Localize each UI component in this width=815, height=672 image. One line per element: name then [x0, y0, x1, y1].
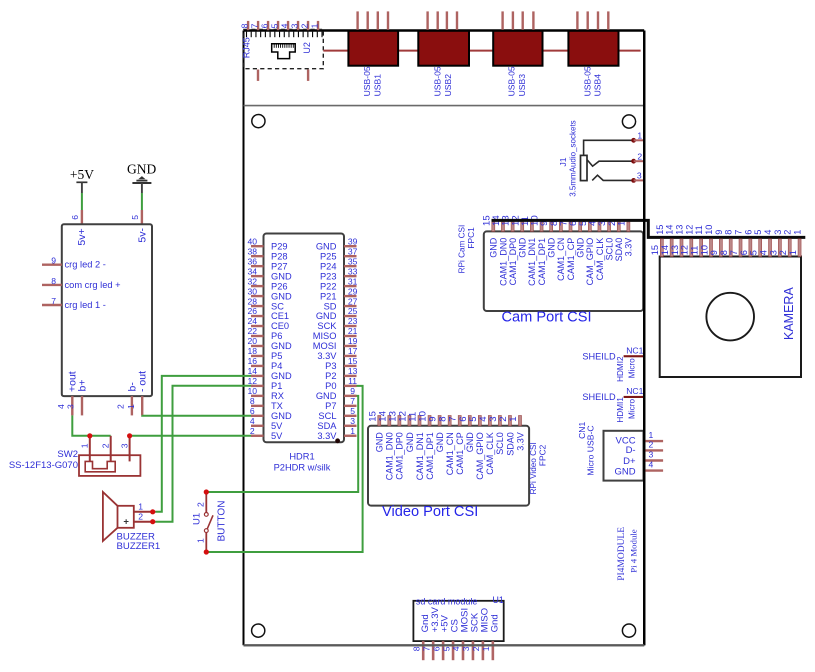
- svg-text:GND: GND: [316, 391, 337, 401]
- FPC2 pin numbers 15..1: [367, 410, 519, 421]
- svg-text:GND: GND: [435, 432, 445, 453]
- svg-text:21: 21: [348, 326, 358, 336]
- svg-text:Micro: Micro: [627, 358, 636, 378]
- svg-text:5: 5: [130, 215, 140, 220]
- svg-text:SS-12F13-G070: SS-12F13-G070: [9, 460, 78, 471]
- svg-text:RX: RX: [271, 391, 284, 401]
- svg-text:J1: J1: [558, 157, 568, 166]
- svg-text:11: 11: [348, 376, 357, 386]
- svg-text:5: 5: [269, 23, 279, 28]
- USB port USB4 (USB-05): [568, 11, 618, 96]
- svg-text:6: 6: [743, 230, 753, 235]
- svg-text:U1: U1: [192, 513, 203, 525]
- svg-text:3: 3: [119, 443, 129, 448]
- CN1 pin stubs 1..4: [644, 430, 663, 471]
- svg-text:2: 2: [101, 443, 111, 448]
- svg-text:HDR1: HDR1: [289, 452, 314, 462]
- wire SW2 pin 3 to HDR1 pin 2 5V: [130, 435, 253, 437]
- J1 pin 2 stub: [634, 160, 644, 162]
- svg-text:8: 8: [250, 396, 255, 406]
- FPC2 RPi Video CSI connector: [368, 416, 529, 506]
- svg-text:15: 15: [650, 245, 660, 255]
- svg-text:P1: P1: [271, 381, 282, 391]
- svg-text:26: 26: [248, 306, 258, 316]
- svg-text:19: 19: [348, 336, 358, 346]
- sd card module U1: [413, 595, 504, 641]
- svg-text:SHEILD: SHEILD: [582, 392, 616, 402]
- wire HDR1 pin 14 GND to buzzer pin 1: [155, 376, 253, 512]
- svg-text:3.3V: 3.3V: [317, 351, 337, 361]
- svg-text:34: 34: [248, 266, 258, 276]
- svg-text:12: 12: [684, 225, 694, 235]
- svg-text:3: 3: [773, 230, 783, 235]
- svg-text:27: 27: [348, 296, 358, 306]
- junction button pin 2: [204, 489, 209, 494]
- svg-text:37: 37: [348, 246, 358, 256]
- J1 pin 2 junction: [631, 159, 636, 164]
- svg-text:9: 9: [350, 386, 355, 396]
- svg-text:3.5mmAudio_sockets: 3.5mmAudio_sockets: [569, 120, 578, 196]
- svg-text:5: 5: [753, 230, 763, 235]
- svg-text:24: 24: [248, 316, 258, 326]
- svg-text:+: +: [123, 517, 129, 528]
- svg-text:14: 14: [665, 225, 675, 235]
- board edge redraw over stubs: [244, 31, 645, 646]
- svg-text:GND: GND: [271, 411, 292, 421]
- charger pin 7 stub crg led 1-: [42, 304, 62, 306]
- svg-text:29: 29: [348, 286, 358, 296]
- svg-text:1: 1: [80, 443, 90, 448]
- wire +out to SW2 pins 1/2: [72, 415, 110, 435]
- svg-text:GND: GND: [489, 237, 499, 257]
- svg-text:18: 18: [248, 346, 258, 356]
- svg-text:15: 15: [655, 225, 665, 235]
- svg-text:CAM1_CN: CAM1_CN: [556, 238, 566, 281]
- junction SW2 pin 1 / +out: [87, 433, 92, 438]
- svg-text:7: 7: [249, 23, 259, 28]
- svg-text:7: 7: [350, 396, 355, 406]
- micro HDMI port HDMI2: [582, 345, 643, 382]
- svg-text:U2: U2: [302, 42, 312, 54]
- red wire net along USB ports: [323, 50, 640, 52]
- svg-text:KAMERA: KAMERA: [782, 287, 796, 340]
- svg-text:Video Port CSI: Video Port CSI: [382, 504, 478, 520]
- charger pin 8 stub com crg led+: [42, 284, 62, 286]
- svg-text:11: 11: [690, 246, 700, 256]
- svg-text:14: 14: [248, 366, 258, 376]
- RJ45 connector U2: [244, 29, 323, 68]
- svg-text:17: 17: [348, 346, 358, 356]
- svg-text:6: 6: [70, 215, 80, 220]
- wire +5V to charger pin 6: [81, 193, 83, 210]
- micro HDMI port HDMI1: [582, 386, 643, 423]
- wire -out to HDR1 pin 6 GND: [142, 414, 253, 416]
- svg-text:USB2: USB2: [443, 74, 453, 97]
- svg-text:RJ45: RJ45: [242, 37, 252, 58]
- svg-text:GND: GND: [271, 341, 292, 351]
- svg-text:b+: b+: [76, 380, 88, 392]
- svg-text:CE0: CE0: [271, 321, 289, 331]
- svg-text:8: 8: [411, 646, 421, 651]
- svg-text:P25: P25: [320, 251, 337, 261]
- HDR1 right pin stubs odd 39..1: [344, 246, 357, 436]
- camera module KAMERA: [660, 257, 801, 378]
- svg-text:SC: SC: [271, 301, 284, 311]
- svg-text:2: 2: [195, 502, 205, 507]
- svg-text:U1: U1: [492, 595, 504, 605]
- svg-text:6: 6: [431, 646, 441, 651]
- svg-text:SCL: SCL: [318, 411, 336, 421]
- svg-text:5: 5: [350, 406, 355, 416]
- J1 pin 3 junction: [631, 178, 636, 183]
- KAMERA pin numbers on stubs: [650, 245, 798, 255]
- slide switch SW2 SS-12F13-G070: [79, 436, 140, 476]
- J1 pin 3 stub: [634, 179, 644, 181]
- svg-text:8: 8: [51, 276, 56, 286]
- svg-text:P27: P27: [271, 261, 288, 271]
- svg-text:CAM1_DN0: CAM1_DN0: [385, 432, 395, 480]
- charger pin 4 stub +out: [71, 396, 73, 415]
- svg-text:SHEILD: SHEILD: [582, 351, 616, 361]
- svg-text:1: 1: [309, 23, 319, 28]
- svg-text:HDMI1: HDMI1: [616, 397, 625, 423]
- svg-text:3.3V: 3.3V: [624, 238, 634, 257]
- svg-text:9: 9: [51, 256, 56, 266]
- svg-text:39: 39: [348, 236, 358, 246]
- svg-text:14: 14: [660, 245, 670, 255]
- svg-text:6: 6: [250, 406, 255, 416]
- svg-text:CAM1_CP: CAM1_CP: [455, 432, 465, 475]
- svg-text:CAM1_DP1: CAM1_DP1: [537, 238, 547, 286]
- HDR1 right pin numbers: [348, 236, 358, 436]
- svg-text:7: 7: [729, 250, 739, 255]
- svg-text:1: 1: [788, 250, 798, 255]
- svg-text:GND: GND: [614, 466, 635, 477]
- svg-text:Pi 4 Module: Pi 4 Module: [629, 529, 639, 573]
- svg-text:GND: GND: [375, 432, 385, 453]
- svg-text:11: 11: [694, 225, 704, 235]
- svg-text:USB3: USB3: [517, 74, 527, 97]
- svg-text:CAM1_DN1: CAM1_DN1: [415, 432, 425, 480]
- svg-text:MISO: MISO: [313, 331, 337, 341]
- RJ45 U2 pin numbers 8..1: [240, 23, 320, 28]
- svg-text:1: 1: [350, 426, 355, 436]
- svg-text:10: 10: [699, 245, 709, 255]
- svg-text:25: 25: [348, 306, 358, 316]
- svg-text:P4: P4: [271, 361, 282, 371]
- svg-text:31: 31: [348, 276, 358, 286]
- svg-text:USB-05: USB-05: [362, 66, 372, 96]
- svg-text:GND: GND: [271, 271, 292, 281]
- svg-text:9: 9: [709, 250, 719, 255]
- svg-text:13: 13: [674, 225, 684, 235]
- svg-text:1: 1: [138, 502, 143, 512]
- svg-text:USB-05: USB-05: [582, 66, 592, 96]
- svg-text:SD: SD: [324, 301, 337, 311]
- svg-text:2: 2: [637, 151, 642, 161]
- charger pin 3 stub b+: [81, 396, 83, 415]
- svg-text:sd card module: sd card module: [416, 596, 478, 606]
- svg-text:3: 3: [637, 171, 642, 181]
- svg-text:BUZZER1: BUZZER1: [117, 541, 161, 552]
- svg-text:- out: - out: [137, 371, 149, 392]
- svg-text:CAM1_DP0: CAM1_DP0: [395, 432, 405, 480]
- svg-text:8: 8: [724, 230, 734, 235]
- svg-text:4: 4: [56, 404, 66, 409]
- J1 pin 1 junction: [631, 138, 636, 143]
- svg-text:3.3V: 3.3V: [317, 431, 337, 441]
- svg-text:PI4MODULE: PI4MODULE: [617, 527, 627, 581]
- svg-text:40: 40: [248, 236, 258, 246]
- svg-text:MOSI: MOSI: [313, 341, 337, 351]
- mounting hole top-left: [252, 115, 265, 128]
- svg-text:4: 4: [250, 416, 255, 426]
- svg-text:3: 3: [66, 404, 76, 409]
- svg-text:13: 13: [670, 245, 680, 255]
- svg-text:CAM1_DN1: CAM1_DN1: [527, 238, 537, 286]
- svg-text:22: 22: [248, 326, 258, 336]
- svg-text:Cam Port CSI: Cam Port CSI: [502, 309, 592, 325]
- svg-text:P7: P7: [325, 401, 336, 411]
- svg-text:GND: GND: [575, 237, 585, 257]
- svg-text:5V: 5V: [271, 431, 283, 441]
- svg-text:7: 7: [51, 296, 56, 306]
- svg-text:CAM1_CN: CAM1_CN: [445, 432, 455, 475]
- svg-text:1: 1: [637, 131, 642, 141]
- junction buzzer pin 1: [150, 509, 155, 514]
- svg-text:SDA0: SDA0: [505, 432, 515, 456]
- svg-text:Gnd: Gnd: [489, 614, 500, 632]
- svg-text:2: 2: [778, 250, 788, 255]
- svg-text:CAM1_DN0: CAM1_DN0: [498, 238, 508, 286]
- svg-text:3: 3: [649, 450, 654, 460]
- push button U1: [204, 492, 213, 552]
- svg-text:4: 4: [758, 250, 768, 255]
- svg-text:NC1: NC1: [626, 345, 643, 355]
- svg-text:12: 12: [680, 245, 690, 255]
- svg-text:P3: P3: [325, 361, 336, 371]
- svg-text:SDA0: SDA0: [614, 238, 624, 262]
- svg-text:2: 2: [116, 404, 126, 409]
- svg-text:1: 1: [481, 646, 491, 651]
- buzzer BUZZER1: [103, 492, 155, 541]
- svg-text:P28: P28: [271, 251, 288, 261]
- charger pin 6 stub: [81, 210, 83, 224]
- svg-text:CAM1_CP: CAM1_CP: [566, 238, 576, 281]
- svg-text:HDMI2: HDMI2: [616, 356, 625, 382]
- svg-text:+5V: +5V: [70, 167, 94, 182]
- svg-text:3: 3: [768, 250, 778, 255]
- junction button pin 1: [204, 549, 209, 554]
- svg-text:D-: D-: [626, 445, 636, 456]
- svg-text:USB-05: USB-05: [507, 66, 517, 96]
- svg-text:crg led 1 -: crg led 1 -: [65, 300, 106, 310]
- battery charger module: [62, 224, 152, 396]
- svg-text:P26: P26: [271, 281, 288, 291]
- pin header HDR1 P2HDR w/silk: [264, 234, 345, 444]
- svg-text:FPC2: FPC2: [537, 444, 547, 466]
- svg-text:TX: TX: [271, 401, 283, 411]
- svg-text:2: 2: [299, 23, 309, 28]
- svg-text:P0: P0: [325, 381, 336, 391]
- ground symbol GND: [127, 162, 156, 193]
- svg-text:com crg led +: com crg led +: [65, 280, 121, 290]
- svg-text:SCK: SCK: [317, 321, 337, 331]
- charger pin 5 stub: [141, 210, 143, 224]
- svg-text:1: 1: [793, 230, 803, 235]
- charger pin 9 stub crg led 2-: [42, 264, 62, 266]
- svg-text:13: 13: [348, 366, 358, 376]
- svg-text:P2HDR w/silk: P2HDR w/silk: [274, 462, 331, 472]
- svg-text:5V: 5V: [271, 421, 283, 431]
- svg-text:GND: GND: [316, 241, 337, 251]
- power symbol +5V: [70, 167, 94, 193]
- svg-text:38: 38: [248, 246, 258, 256]
- svg-text:8: 8: [240, 23, 250, 28]
- svg-text:4: 4: [649, 460, 654, 470]
- mounting hole top-right: [622, 115, 635, 128]
- svg-text:GND: GND: [271, 371, 292, 381]
- svg-text:NC1: NC1: [626, 386, 643, 396]
- svg-text:P5: P5: [271, 351, 282, 361]
- RJ45 U2 bottom pin stubs: [258, 70, 308, 81]
- svg-text:CAM1_DP0: CAM1_DP0: [508, 238, 518, 286]
- svg-text:6: 6: [739, 250, 749, 255]
- svg-text:32: 32: [248, 276, 258, 286]
- svg-text:SCL0: SCL0: [495, 432, 505, 455]
- svg-text:8: 8: [719, 250, 729, 255]
- HDR1 left pin stubs even 40..2: [251, 246, 264, 436]
- svg-text:GND: GND: [316, 311, 337, 321]
- svg-text:FPC1: FPC1: [466, 227, 476, 249]
- svg-text:crg led 2 -: crg led 2 -: [65, 260, 106, 270]
- svg-text:5: 5: [441, 646, 451, 651]
- RJ45 U2 top pin stubs 8..1: [248, 21, 318, 30]
- svg-text:5v-: 5v-: [136, 228, 148, 243]
- svg-text:6: 6: [259, 23, 269, 28]
- HDR1 left pin numbers: [248, 236, 258, 436]
- wire CSI ribbon bus to camera: [492, 220, 806, 237]
- mounting hole bottom-left: [252, 624, 265, 637]
- svg-text:3.3V: 3.3V: [515, 432, 525, 451]
- svg-text:GND: GND: [271, 291, 292, 301]
- junction SW2 pin 3 / 5V net: [127, 433, 132, 438]
- svg-text:2: 2: [649, 439, 654, 449]
- svg-text:CE1: CE1: [271, 311, 289, 321]
- svg-text:USB1: USB1: [372, 74, 382, 97]
- svg-text:SCL0: SCL0: [604, 238, 614, 261]
- wire HDR1 pin 12 P1 to buzzer pin 2: [155, 386, 253, 522]
- svg-text:SW2: SW2: [57, 449, 78, 460]
- svg-text:10: 10: [704, 225, 714, 235]
- svg-text:2: 2: [783, 230, 793, 235]
- svg-text:CAM1_DP1: CAM1_DP1: [425, 432, 435, 480]
- svg-text:GND: GND: [405, 432, 415, 453]
- svg-text:5: 5: [749, 250, 759, 255]
- sd card module pin stubs 8..1: [423, 641, 493, 660]
- svg-text:P21: P21: [320, 291, 337, 301]
- svg-text:GND: GND: [127, 162, 156, 177]
- KAMERA pin stubs 15..1: [660, 239, 801, 257]
- svg-text:12: 12: [248, 376, 258, 386]
- svg-text:1: 1: [126, 404, 136, 409]
- svg-text:USB4: USB4: [593, 74, 603, 97]
- wire HDR1 pin 11 P0 to button pin 1: [206, 386, 362, 552]
- svg-text:10: 10: [248, 386, 258, 396]
- svg-text:7: 7: [734, 230, 744, 235]
- charger pin 2 stub b-: [131, 396, 133, 415]
- FPC1 pin numbers 15..1: [481, 215, 627, 226]
- svg-text:3: 3: [461, 646, 471, 651]
- svg-text:3: 3: [289, 23, 299, 28]
- svg-text:16: 16: [248, 356, 258, 366]
- FPC1 RPi Cam CSI connector: [484, 222, 643, 311]
- svg-text:4: 4: [279, 23, 289, 28]
- svg-text:CAM_GPIO: CAM_GPIO: [585, 238, 595, 286]
- svg-text:P2: P2: [325, 371, 336, 381]
- svg-text:P29: P29: [271, 241, 288, 251]
- svg-text:9: 9: [714, 230, 724, 235]
- svg-text:33: 33: [348, 266, 358, 276]
- svg-text:35: 35: [348, 256, 358, 266]
- USB port USB2 (USB-05): [418, 11, 469, 96]
- svg-text:5v+: 5v+: [76, 228, 88, 245]
- svg-text:20: 20: [248, 336, 258, 346]
- svg-text:2: 2: [471, 646, 481, 651]
- svg-text:GND: GND: [465, 432, 475, 453]
- svg-text:1: 1: [508, 416, 519, 421]
- svg-text:GND: GND: [547, 237, 557, 257]
- svg-text:BUTTON: BUTTON: [217, 501, 228, 542]
- audio socket J1 3.5mm: [581, 140, 634, 180]
- svg-text:23: 23: [348, 316, 358, 326]
- svg-text:Micro USB-C: Micro USB-C: [585, 425, 595, 475]
- svg-text:7: 7: [421, 646, 431, 651]
- svg-text:4: 4: [763, 230, 773, 235]
- svg-text:4: 4: [451, 646, 461, 651]
- svg-text:GND: GND: [518, 237, 528, 257]
- micro USB-C connector CN1: [604, 431, 644, 481]
- svg-text:36: 36: [248, 256, 258, 266]
- PCB board outline Pi4 module: [244, 31, 645, 646]
- svg-text:Micro: Micro: [627, 399, 636, 419]
- svg-text:P6: P6: [271, 331, 282, 341]
- KAMERA ribbon pin numbers above bus: [655, 225, 803, 235]
- mounting hole bottom-right: [622, 624, 635, 637]
- svg-text:CAM_CLK: CAM_CLK: [485, 432, 495, 475]
- svg-text:28: 28: [248, 296, 258, 306]
- charger pin 1 stub -out: [141, 396, 143, 415]
- sd card module pin numbers 8..1: [411, 646, 491, 651]
- svg-text:P22: P22: [320, 281, 337, 291]
- wire HDR1 pin 9 GND to button pin 2: [206, 396, 358, 492]
- svg-text:CAM_CLK: CAM_CLK: [595, 238, 605, 281]
- svg-text:1: 1: [195, 538, 205, 543]
- wire GND to charger pin 5: [141, 193, 143, 210]
- svg-text:2: 2: [138, 512, 143, 522]
- svg-text:USB-05: USB-05: [432, 66, 442, 96]
- J1 pin 1 stub: [634, 139, 644, 141]
- svg-text:SDA: SDA: [317, 421, 337, 431]
- USB port USB1 (USB-05): [348, 11, 398, 96]
- svg-text:P24: P24: [320, 261, 337, 271]
- svg-text:P23: P23: [320, 271, 337, 281]
- svg-text:3: 3: [350, 416, 355, 426]
- svg-text:30: 30: [248, 286, 258, 296]
- svg-text:2: 2: [250, 426, 255, 436]
- svg-text:CAM_GPIO: CAM_GPIO: [475, 432, 485, 480]
- junction buzzer pin 2: [150, 519, 155, 524]
